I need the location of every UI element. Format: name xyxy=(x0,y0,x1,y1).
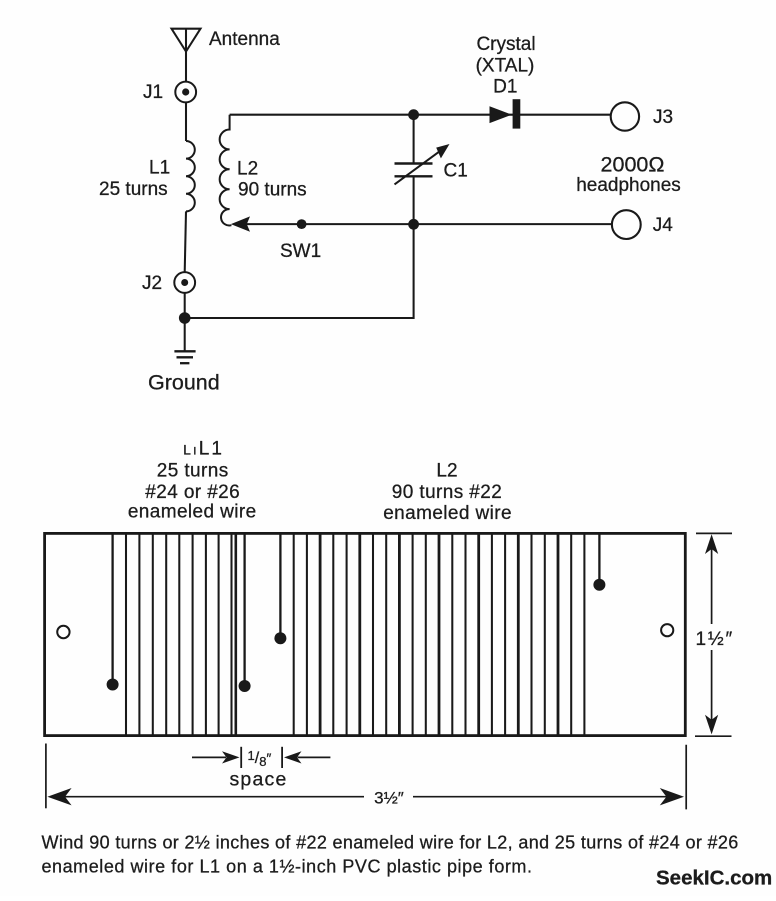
svg-text:Wind 90 turns or 2½ inches of: Wind 90 turns or 2½ inches of #22 enamel… xyxy=(42,833,739,853)
svg-text:Crystal: Crystal xyxy=(476,34,535,55)
winding L2 turns xyxy=(294,535,585,735)
svg-text:L1: L1 xyxy=(149,158,170,179)
dimension 1-1/2 inch height xyxy=(695,533,732,736)
svg-text:J1: J1 xyxy=(143,82,163,103)
wire J2 to ground xyxy=(184,293,186,351)
wire end L1 inner lead xyxy=(239,535,251,693)
svg-text:enameled wire for L1 on a 1½-i: enameled wire for L1 on a 1½-inch PVC pl… xyxy=(42,857,533,877)
svg-text:space: space xyxy=(229,769,287,791)
junction node top of C1 xyxy=(408,109,419,120)
svg-text:Antenna: Antenna xyxy=(209,29,280,50)
wire end L2 inner lead xyxy=(274,535,286,645)
inductor L2 xyxy=(220,115,232,226)
svg-text:25 turns: 25 turns xyxy=(157,461,229,482)
svg-text:(XTAL): (XTAL) xyxy=(476,56,535,77)
svg-text:#24 or #26: #24 or #26 xyxy=(145,482,240,503)
svg-text:headphones: headphones xyxy=(576,175,681,196)
svg-text:SW1: SW1 xyxy=(280,241,321,262)
svg-text:25 turns: 25 turns xyxy=(99,179,168,200)
wire L1 to J2 xyxy=(185,211,186,272)
svg-text:90 turns: 90 turns xyxy=(238,180,307,201)
capacitor C1 xyxy=(395,119,450,224)
junction node bottom of C1 xyxy=(408,219,419,230)
junction ground node xyxy=(179,312,191,324)
wire C1 bottom to ground junction xyxy=(185,224,414,318)
dimension 3-1/2 inch width xyxy=(46,744,686,810)
svg-text:2000Ω: 2000Ω xyxy=(601,153,665,177)
jack J4 xyxy=(612,210,641,239)
wire L2 top to diode node xyxy=(230,114,611,116)
svg-text:L2: L2 xyxy=(237,159,258,180)
diode D1 xyxy=(490,99,521,128)
svg-text:1½″: 1½″ xyxy=(696,629,735,650)
dimension 1/8 inch space xyxy=(192,747,330,768)
svg-text:LıL1: LıL1 xyxy=(183,439,224,460)
jack J3 xyxy=(611,102,639,130)
svg-text:enameled wire: enameled wire xyxy=(128,502,257,523)
wire end L1 outer lead xyxy=(107,535,119,691)
svg-text:SeekIC.com: SeekIC.com xyxy=(656,867,772,890)
mounting hole right xyxy=(661,624,673,636)
jack J1 xyxy=(175,82,196,103)
svg-text:J4: J4 xyxy=(653,215,674,236)
svg-text:3½″: 3½″ xyxy=(374,789,404,808)
winding L1 turns xyxy=(126,535,236,735)
wire J1 to L1 xyxy=(185,102,187,141)
svg-text:D1: D1 xyxy=(493,77,517,98)
svg-text:Ground: Ground xyxy=(148,371,220,395)
switch SW1 arrow xyxy=(231,216,250,231)
ground xyxy=(174,351,195,363)
jack J2 xyxy=(174,272,195,293)
antenna symbol xyxy=(172,29,201,52)
svg-text:J3: J3 xyxy=(653,107,673,128)
switch SW1 contact dot xyxy=(297,219,307,229)
mounting hole left xyxy=(57,626,69,638)
svg-text:C1: C1 xyxy=(444,161,468,182)
wire SW1 to J4 xyxy=(236,223,612,225)
svg-text:90 turns #22: 90 turns #22 xyxy=(392,482,502,503)
coil form body xyxy=(45,533,686,735)
svg-text:L2: L2 xyxy=(436,461,457,482)
inductor L1 xyxy=(186,141,195,211)
svg-text:J2: J2 xyxy=(142,273,162,294)
svg-text:enameled wire: enameled wire xyxy=(383,503,512,524)
wire end L2 outer lead xyxy=(593,535,605,591)
wire antenna to J1 xyxy=(185,52,187,82)
